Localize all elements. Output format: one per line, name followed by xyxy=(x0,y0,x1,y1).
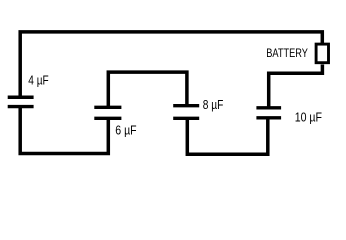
capacitor C3 8uF top plate xyxy=(173,104,199,107)
capacitor C2 6uF top plate xyxy=(94,106,121,109)
wire: C4 top lead + battery bottom jog xyxy=(269,65,323,109)
svg-text:BATTERY: BATTERY xyxy=(266,46,308,60)
wire: C2 top lead + middle rail + C3 top lead xyxy=(108,72,187,108)
svg-text:6 µF: 6 µF xyxy=(115,124,137,138)
svg-text:4 µF: 4 µF xyxy=(28,74,49,88)
capacitor C4 10uF top plate xyxy=(256,106,281,109)
svg-text:8 µF: 8 µF xyxy=(203,98,224,112)
wire: C1 bottom lead + bottom-left rail + C2 bottom lead xyxy=(20,107,108,154)
battery B1 (rectangle symbol) xyxy=(316,44,328,63)
svg-text:10 µF: 10 µF xyxy=(295,110,323,124)
capacitor C1 4uF bottom plate xyxy=(8,105,34,108)
capacitor C4 10uF bottom plate xyxy=(256,116,281,119)
capacitor C2 6uF bottom plate xyxy=(94,117,121,120)
wire: left rail + top rail + battery top lead xyxy=(20,32,322,97)
capacitor C1 4uF top plate xyxy=(8,96,34,99)
capacitor C3 8uF bottom plate xyxy=(173,117,199,120)
wire: C3 bottom lead + bottom-right rail + C4 bottom lead xyxy=(187,117,267,154)
